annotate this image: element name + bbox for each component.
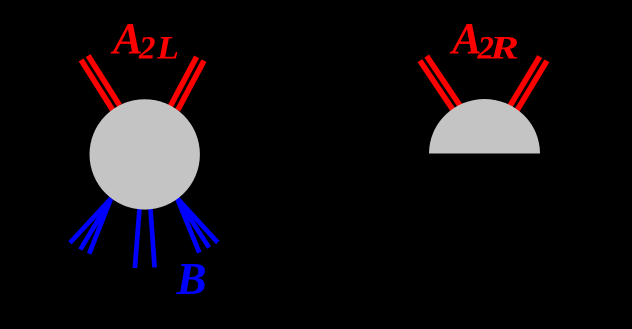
blue leg B2: [80, 199, 111, 250]
svg-text:R: R: [489, 31, 519, 67]
blue leg B7: [177, 198, 209, 248]
label A2L (red): [110, 13, 179, 67]
blue leg B8 (outermost of right bundle): [177, 198, 218, 243]
blue leg B6 (innermost of right bundle): [177, 198, 199, 253]
svg-text:A: A: [110, 13, 143, 63]
svg-text:L: L: [156, 31, 179, 67]
blue leg B1 (leftmost of left bundle): [70, 199, 111, 243]
red double leg, upper-left of right blob: [420, 56, 462, 112]
blue leg B4 (left middle): [135, 205, 140, 268]
red double leg, upper-left of left blob: [81, 56, 119, 110]
red double leg, upper-right of right blob: [509, 57, 547, 112]
blue leg B3: [89, 199, 111, 254]
label A2R (red): [449, 13, 519, 67]
red double leg, upper-right of left blob: [170, 57, 204, 110]
label B (blue): [176, 254, 207, 304]
left amplitude blob (gray circle): [90, 99, 200, 209]
svg-text:B: B: [176, 254, 207, 304]
svg-text:2: 2: [138, 31, 156, 67]
blue leg B5 (right middle): [150, 205, 154, 268]
right amplitude blob (gray half-disk): [429, 99, 540, 153]
